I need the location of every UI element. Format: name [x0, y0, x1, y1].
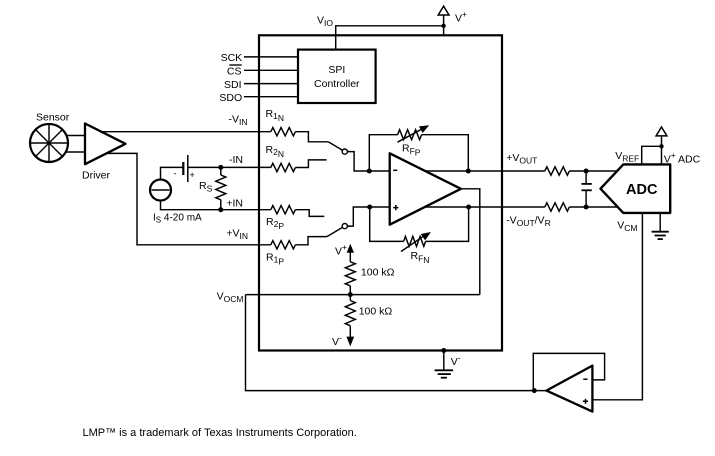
resistor R2P [271, 206, 296, 214]
amp minus sign [393, 169, 397, 171]
power V+ arrow (ADC) [656, 127, 667, 136]
wire R2P open throw [295, 210, 324, 217]
svg-text:-IN: -IN [229, 154, 243, 166]
wire battery left to current source [161, 167, 184, 179]
wire buffer feedback loop [533, 353, 604, 390]
svg-text:LMP™ is a trademark of Texas I: LMP™ is a trademark of Texas Instruments… [83, 427, 357, 439]
svg-text:Driver: Driver [82, 170, 111, 182]
wire capacitor stubs [585, 171, 587, 207]
wire SCK [244, 56, 298, 58]
svg-text:100 kΩ: 100 kΩ [361, 267, 395, 279]
ADC block [601, 164, 671, 213]
label SPI Controller [314, 64, 360, 90]
junction dot buffer output [532, 388, 537, 393]
variable resistor RFP [398, 125, 430, 142]
wire R1N to switch blade start [295, 132, 328, 142]
junction dot -node [367, 169, 372, 174]
label CS with overline [227, 65, 242, 78]
svg-text:ADC: ADC [626, 182, 658, 198]
chip outline box [259, 35, 502, 350]
wire box-bottom ground stub [443, 351, 445, 371]
wire -VIN from driver to R1N [100, 131, 271, 133]
wire upper rail to amp - input [369, 170, 390, 172]
wire current source to +IN [161, 200, 271, 209]
wire switch1 to -node [347, 152, 369, 171]
ground at box bottom [435, 370, 454, 377]
resistor R1P [271, 241, 296, 249]
wire lower rail to amp + input [370, 206, 391, 208]
wire RFN feedback loop [370, 207, 469, 241]
current source IS [150, 180, 171, 201]
switch blade upper [328, 142, 343, 151]
svg-text:Sensor: Sensor [36, 112, 70, 124]
resistor 100k upper [345, 262, 355, 286]
power V+ arrow (top) [438, 6, 449, 15]
svg-text:SCK: SCK [221, 52, 243, 64]
wire VOCM horizontal [246, 294, 480, 296]
battery B1 [183, 155, 188, 182]
resistor R1N [271, 127, 296, 135]
resistor output upper [545, 167, 570, 175]
wire R1P to switch blade start [295, 237, 327, 245]
switch blade lower [327, 227, 343, 236]
wire sensor to driver upper [66, 135, 85, 137]
wire lower rail -VOUT [424, 206, 619, 208]
junction dot V+ top [441, 24, 445, 28]
resistor RS [216, 175, 226, 200]
wire buffer + input to VCM [592, 213, 642, 400]
arrow V+ at 100k [347, 244, 354, 253]
svg-text:-: - [174, 169, 177, 179]
resistor 100k lower [345, 301, 355, 326]
op-amp U2 fully differential [390, 153, 461, 224]
svg-text:+IN: +IN [226, 198, 243, 210]
svg-text:Controller: Controller [314, 78, 360, 90]
wire upper rail +VOUT [424, 170, 619, 172]
sensor wheel [30, 124, 68, 162]
svg-text:SPI: SPI [328, 64, 345, 76]
resistor R2N [271, 163, 296, 171]
wire SDI [244, 83, 298, 85]
wire switch2 to +node [347, 207, 370, 226]
wire sensor to driver lower [66, 151, 85, 153]
junction dot +IN/RS [218, 207, 223, 212]
svg-text:+: + [190, 170, 195, 180]
wire ADC ground stub [659, 213, 661, 232]
buffer minus sign [583, 378, 587, 380]
junction dot cap upper [584, 169, 589, 174]
wire VOCM to bottom rail [246, 295, 547, 391]
wire VREF loop [642, 136, 662, 165]
arrow V- at 100k [346, 337, 354, 347]
wire V+ shaft to box [443, 15, 445, 36]
junction dot +node [367, 205, 372, 210]
svg-text:CS: CS [227, 66, 242, 78]
junction dot -IN/RS [218, 165, 223, 170]
switch S2 circle [342, 224, 347, 229]
driver amplifier [85, 124, 126, 165]
wire RFP feedback loop [369, 135, 468, 171]
variable resistor RFN [401, 232, 431, 252]
junction dot +VOUT [466, 169, 471, 174]
ground at ADC [652, 232, 669, 239]
wire -IN from battery to R2N [188, 166, 271, 168]
junction dot VOCM [348, 292, 353, 297]
junction dot cap lower [584, 205, 589, 210]
wire RS stubs [220, 167, 222, 209]
buffer op-amp U3 [546, 366, 592, 412]
junction dot V- ground [441, 348, 446, 353]
svg-text:SDI: SDI [224, 79, 242, 91]
wire 100k chain stubs [349, 252, 351, 339]
wire SDO [244, 96, 298, 98]
svg-text:IS 4-20 mA: IS 4-20 mA [153, 212, 202, 224]
wire VIO net [336, 26, 444, 50]
buffer plus sign [583, 399, 588, 404]
switch S1 circle [342, 149, 347, 154]
wire amp tip to VOCM node [461, 189, 480, 295]
junction dot -VOUT [466, 205, 471, 210]
amp plus sign [393, 205, 398, 210]
capacitor C1 [582, 184, 592, 190]
svg-text:SDO: SDO [219, 92, 242, 104]
resistor output lower [545, 203, 570, 211]
svg-text:100 kΩ: 100 kΩ [359, 306, 393, 318]
junction dot VREF/V+ADC [659, 144, 663, 148]
wire CS [244, 69, 298, 71]
SPI controller U1 [298, 50, 376, 103]
wire R2N open throw [295, 160, 326, 168]
wire +VIN from driver to R1P [105, 153, 271, 244]
